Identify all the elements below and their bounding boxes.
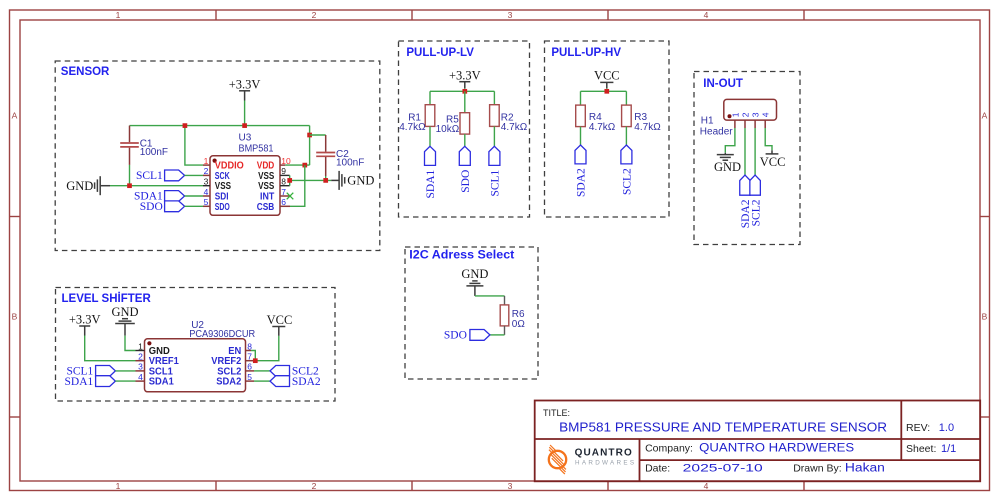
pin 5 SDO <box>203 197 230 213</box>
ground GND (in-out) <box>714 153 741 174</box>
svg-text:3: 3 <box>138 362 143 372</box>
power +3.3V (sensor) <box>229 77 261 100</box>
wire bus to R3 <box>625 91 627 105</box>
capacitor C2 <box>316 135 364 176</box>
svg-text:2025-07-10: 2025-07-10 <box>683 463 763 475</box>
resistor R1 <box>399 105 435 134</box>
svg-text:+3.3V: +3.3V <box>449 68 481 82</box>
svg-text:Sheet:: Sheet: <box>906 443 936 455</box>
junction C1/GND <box>127 183 132 188</box>
svg-text:2: 2 <box>312 10 317 20</box>
wire R6 to SDO <box>490 334 505 336</box>
wire H1 pin1 to GND <box>725 128 735 153</box>
wire SCL1 to pin2 <box>185 174 203 176</box>
global label SDA2 (vertical) <box>575 145 588 197</box>
pin 4 (H1) <box>761 112 771 128</box>
wire +3.3V to VREF1 <box>85 336 136 361</box>
svg-text:SDA2: SDA2 <box>576 168 588 197</box>
svg-text:SDO: SDO <box>460 170 472 193</box>
svg-text:BMP581: BMP581 <box>239 144 274 155</box>
svg-text:SDA1: SDA1 <box>149 377 174 388</box>
pin 4 SDA1 (U2) <box>136 372 175 388</box>
svg-text:2: 2 <box>138 352 143 362</box>
wire CSB riser <box>290 165 305 206</box>
pin 6 SCL2 (U2) <box>217 362 254 378</box>
wire R2 to label <box>493 126 495 146</box>
svg-text:0Ω: 0Ω <box>512 319 526 330</box>
global label SCL1 <box>136 170 185 182</box>
IN-OUT section box <box>694 72 800 245</box>
wire SDA1 to pin4 <box>115 380 135 382</box>
global label SCL2 (in-out vertical) <box>750 175 762 226</box>
global label SDO <box>140 201 185 213</box>
power VCC (pull-up-hv) <box>594 69 620 89</box>
svg-text:5: 5 <box>204 197 209 207</box>
svg-text:A: A <box>12 111 18 121</box>
svg-text:SENSOR: SENSOR <box>61 66 110 78</box>
svg-text:100nF: 100nF <box>140 147 168 158</box>
PULL-UP-LV section box <box>399 41 530 217</box>
PULL-UP-HV section box <box>545 41 670 217</box>
wire R1 to label <box>429 126 431 146</box>
svg-text:4: 4 <box>761 112 771 117</box>
svg-text:U3: U3 <box>239 133 252 144</box>
IC U2 PCA9306DCUR <box>145 320 256 392</box>
svg-text:Header: Header <box>700 127 733 138</box>
svg-text:+3.3V: +3.3V <box>229 77 261 91</box>
svg-text:QUANTRO: QUANTRO <box>575 447 633 458</box>
pin 10 VDD <box>257 156 291 172</box>
svg-text:4: 4 <box>138 372 143 382</box>
wire SCL1 to pin3 <box>115 370 135 372</box>
junction VDDIO branch <box>183 123 188 128</box>
pin 3 SCL1 (U2) <box>136 362 174 378</box>
wire H1 pin4 to VCC <box>765 128 772 150</box>
svg-text:5: 5 <box>247 372 252 382</box>
wire GND to pin1 <box>125 336 136 351</box>
svg-text:I2C Adress Select: I2C Adress Select <box>409 249 514 261</box>
junction pull-up bus HV <box>604 89 609 94</box>
pin 8 EN <box>228 341 252 357</box>
ground GND (sensor right) <box>331 171 374 190</box>
svg-text:1: 1 <box>116 481 121 491</box>
svg-text:2: 2 <box>204 166 209 176</box>
title block <box>535 401 981 482</box>
svg-text:BMP581 PRESSURE AND TEMPERATUR: BMP581 PRESSURE AND TEMPERATURE SENSOR <box>559 421 887 435</box>
svg-text:GND: GND <box>347 174 374 188</box>
wire GND to R6 <box>475 295 505 297</box>
sheet field <box>906 443 956 455</box>
svg-text:B: B <box>12 312 18 322</box>
wire pin5 to SDA2 label <box>254 380 270 382</box>
IC U3 BMP581 <box>210 133 280 216</box>
junction VSS bracket <box>287 178 292 183</box>
svg-text:SCL2: SCL2 <box>750 199 762 226</box>
wire bus to R1 <box>429 91 431 104</box>
svg-text:7: 7 <box>281 187 286 197</box>
wire bus to R4 <box>580 91 582 105</box>
LEVEL SHIFTER section box <box>56 288 336 402</box>
svg-text:10: 10 <box>281 156 291 166</box>
svg-text:10kΩ: 10kΩ <box>436 124 460 135</box>
global label SCL1 (level shifter) <box>66 366 115 378</box>
svg-text:3: 3 <box>204 177 209 187</box>
svg-text:H1: H1 <box>701 116 714 127</box>
power VCC (level shifter) <box>267 313 293 336</box>
svg-text:SCL2: SCL2 <box>622 168 634 195</box>
svg-text:GND: GND <box>66 179 93 193</box>
svg-text:2: 2 <box>312 481 317 491</box>
wire EN bracket <box>251 351 255 361</box>
pin 1 GND (U2) <box>136 341 170 357</box>
svg-text:4: 4 <box>204 187 209 197</box>
global label SCL2 (vertical) <box>621 145 634 195</box>
power +3.3V (pull-up-lv) <box>449 68 481 88</box>
svg-text:SCL1: SCL1 <box>490 169 502 196</box>
svg-text:2: 2 <box>741 112 751 117</box>
svg-text:6: 6 <box>281 197 286 207</box>
pin 7 INT <box>260 187 290 203</box>
wire SDO to pin5 <box>185 205 203 207</box>
svg-text:PULL-UP-HV: PULL-UP-HV <box>551 47 621 59</box>
svg-text:GND: GND <box>111 305 138 319</box>
company logo QUANTRO <box>543 445 636 474</box>
svg-text:PULL-UP-LV: PULL-UP-LV <box>406 47 474 59</box>
svg-text:GND: GND <box>461 267 488 281</box>
pin 3 (H1) <box>751 112 761 128</box>
wire bus to R2 <box>493 91 495 104</box>
global label SDA1 <box>134 191 185 203</box>
rev field <box>906 422 954 434</box>
svg-text:VCC: VCC <box>760 155 786 169</box>
wire to C2 top <box>310 134 326 136</box>
ground GND (level shifter) <box>111 305 138 336</box>
wire top bus <box>130 125 310 127</box>
svg-text:SCL1: SCL1 <box>136 170 163 182</box>
wire +3.3V to top bus <box>244 101 246 126</box>
pin 7 VREF2 <box>211 352 255 368</box>
title field <box>543 408 887 435</box>
svg-text:VCC: VCC <box>267 313 293 327</box>
resistor R3 <box>622 105 662 133</box>
wire C1 to GND net <box>129 165 131 186</box>
global label SCL1 (vertical) <box>489 146 502 196</box>
svg-text:4: 4 <box>704 10 709 20</box>
wire GND to pin3 <box>110 185 203 187</box>
connector H1 header <box>700 99 777 137</box>
pin 4 SDI <box>203 187 229 203</box>
svg-text:SDA1: SDA1 <box>425 169 437 198</box>
pin 2 (H1) <box>741 112 751 128</box>
svg-text:8: 8 <box>281 177 286 187</box>
svg-text:4.7kΩ: 4.7kΩ <box>501 122 528 133</box>
company field <box>645 443 854 455</box>
svg-text:3: 3 <box>508 481 513 491</box>
global label SDA1 (level shifter) <box>65 376 116 388</box>
svg-text:1: 1 <box>138 341 143 351</box>
wire C2 bottom <box>325 176 327 180</box>
svg-text:Hakan: Hakan <box>845 463 885 475</box>
wire VDD to right riser <box>285 164 309 166</box>
global label SDA2 (level shifter) <box>270 376 321 388</box>
svg-text:Company:: Company: <box>645 443 693 455</box>
svg-text:4: 4 <box>704 481 709 491</box>
svg-text:3: 3 <box>508 10 513 20</box>
SENSOR section box <box>55 61 380 251</box>
svg-text:6: 6 <box>247 362 252 372</box>
svg-text:HARDWARES: HARDWARES <box>575 459 636 466</box>
power VCC (in-out, downward) <box>760 150 786 169</box>
ground GND (i2c select) <box>461 267 488 296</box>
pin 2 SCK <box>203 166 230 182</box>
pin 3 VSS <box>203 177 231 193</box>
svg-text:SDA2: SDA2 <box>216 377 241 388</box>
svg-text:4.7kΩ: 4.7kΩ <box>399 122 426 133</box>
I2C Adress Select section box <box>405 247 538 379</box>
pin 6 CSB <box>257 197 290 213</box>
svg-text:GND: GND <box>714 160 741 174</box>
svg-text:SDO: SDO <box>140 201 163 213</box>
capacitor C1 <box>120 126 168 165</box>
svg-text:IN-OUT: IN-OUT <box>703 78 743 90</box>
pin 9 VSS <box>258 166 290 182</box>
wire pull-up bus HV <box>581 90 627 92</box>
junction VDD/CSB riser <box>302 163 307 168</box>
global label SDO (vertical) <box>459 146 472 192</box>
global label SDA2 (in-out vertical) <box>740 175 752 228</box>
date field <box>645 463 885 475</box>
global label SCL2 (level shifter) <box>270 366 319 378</box>
wire VDDIO branch <box>185 126 203 166</box>
wire VCC to VREF2 <box>255 336 278 361</box>
svg-text:PCA9306DCUR: PCA9306DCUR <box>189 329 255 340</box>
pin 5 SDA2 (U2) <box>216 372 254 388</box>
svg-text:1.0: 1.0 <box>939 422 954 434</box>
svg-text:3: 3 <box>751 112 761 117</box>
svg-text:SDA1: SDA1 <box>65 376 94 388</box>
svg-text:4.7kΩ: 4.7kΩ <box>634 122 661 133</box>
no-connect X on pin 7 <box>287 193 294 200</box>
junction pull-up bus LV <box>462 89 467 94</box>
svg-text:100nF: 100nF <box>336 157 364 168</box>
junction +3.3V <box>242 123 247 128</box>
pin 1 (H1) <box>730 112 740 128</box>
global label SDA1 (vertical) <box>425 146 438 198</box>
svg-text:VCC: VCC <box>594 69 620 83</box>
svg-text:SDO: SDO <box>444 330 467 342</box>
svg-text:1/1: 1/1 <box>941 443 956 455</box>
pin 2 VREF1 <box>136 352 180 368</box>
resistor R6 <box>500 296 525 335</box>
svg-text:REV:: REV: <box>906 422 930 434</box>
junction C2 branch <box>307 133 312 138</box>
svg-text:A: A <box>982 111 988 121</box>
wire VSS to GND right <box>290 179 332 181</box>
wire VCC stub <box>606 88 608 91</box>
svg-text:1: 1 <box>730 112 740 117</box>
pin 1 VDDIO <box>203 156 244 172</box>
wire R3 to label <box>625 127 627 145</box>
wire pin6 to SCL2 label <box>254 370 270 372</box>
svg-text:7: 7 <box>247 352 252 362</box>
global label SDO (i2c select) <box>444 330 490 342</box>
ground GND (sensor left) <box>66 176 110 195</box>
svg-text:CSB: CSB <box>257 202 275 213</box>
svg-text:TITLE:: TITLE: <box>543 408 570 418</box>
wire R5 to label <box>464 134 466 146</box>
svg-text:1: 1 <box>116 10 121 20</box>
svg-text:QUANTRO HARDWERES: QUANTRO HARDWERES <box>699 443 854 455</box>
svg-text:9: 9 <box>281 166 286 176</box>
resistor R5 <box>436 113 470 136</box>
wire H1 pin3 to SCL2 <box>754 128 756 175</box>
wire VSS pins bracket <box>289 175 291 185</box>
wire +3.3V stub <box>464 88 466 91</box>
svg-text:B: B <box>982 312 988 322</box>
wire right riser from top bus <box>309 126 311 166</box>
resistor R4 <box>576 105 616 133</box>
svg-text:SDA2: SDA2 <box>292 376 321 388</box>
svg-text:SDO: SDO <box>215 202 230 213</box>
pin 8 VSS <box>258 177 290 193</box>
svg-text:1: 1 <box>204 156 209 166</box>
svg-text:+3.3V: +3.3V <box>69 313 101 327</box>
wire H1 pin2 to SDA2 <box>744 128 746 175</box>
svg-text:4.7kΩ: 4.7kΩ <box>589 122 616 133</box>
junction C2 bottom <box>323 178 328 183</box>
junction EN/VREF2 <box>253 358 258 363</box>
wire R4 to label <box>580 127 582 145</box>
wire pull-up bus LV <box>430 90 494 92</box>
svg-text:Drawn By:: Drawn By: <box>793 463 841 475</box>
svg-text:LEVEL SHİFTER: LEVEL SHİFTER <box>62 292 152 305</box>
svg-text:Date:: Date: <box>645 463 670 475</box>
power +3.3V (level shifter) <box>69 313 101 336</box>
wire bus to R5 <box>464 91 466 112</box>
resistor R2 <box>490 105 528 134</box>
wire SDA1 to pin4 <box>185 195 203 197</box>
